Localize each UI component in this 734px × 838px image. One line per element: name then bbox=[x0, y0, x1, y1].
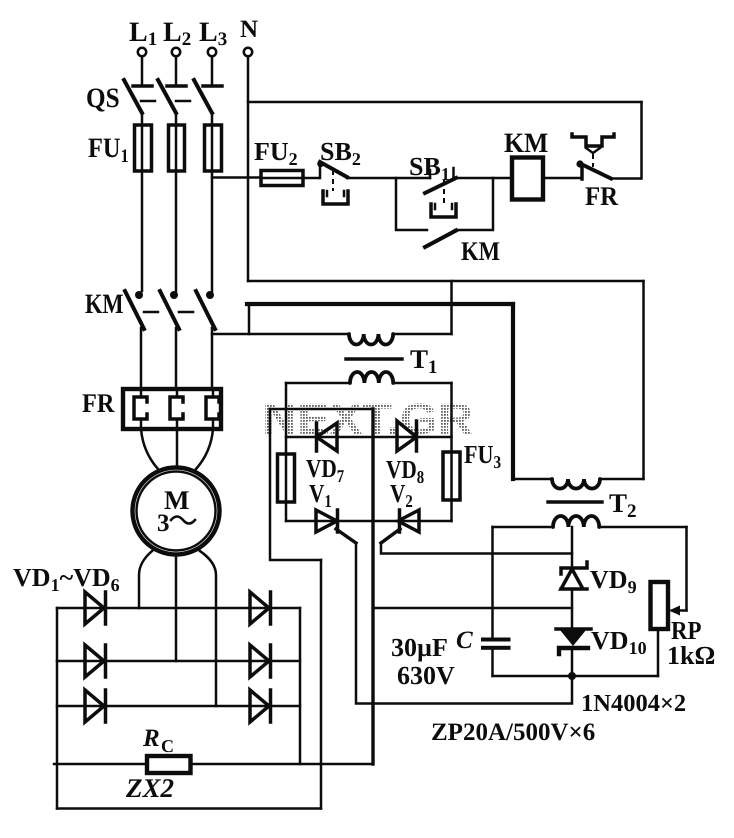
pushbutton SB1 (NO) bbox=[425, 168, 456, 217]
wire V2 gate bbox=[381, 543, 572, 554]
FR heater element 1 bbox=[134, 397, 147, 419]
wire L2 to QS bbox=[175, 57, 178, 85]
fuse FU1 pole2 bbox=[169, 125, 185, 171]
wire KM coil to FR bbox=[543, 177, 582, 180]
motor M bbox=[133, 468, 220, 555]
wire L3 to QS bbox=[211, 57, 214, 85]
wire box right lower bbox=[450, 500, 453, 521]
switch QS pole 2 bbox=[158, 80, 186, 125]
zener VD10 bbox=[556, 629, 591, 654]
wire inner tap bbox=[270, 408, 373, 411]
wire T1 right riser bbox=[450, 281, 453, 334]
wire center tap down bbox=[571, 527, 574, 566]
wire bridge rail 3 bbox=[57, 705, 300, 708]
fuse FU2 bbox=[261, 171, 303, 186]
transformer T1 primary coil bbox=[349, 334, 393, 345]
thyristor V1 bbox=[316, 510, 356, 543]
pushbutton SB2 (NC) bbox=[317, 161, 348, 204]
svg-text:L1: L1 bbox=[129, 17, 157, 50]
fuse FU4 (left, unlabeled) bbox=[278, 454, 295, 502]
svg-text:QS: QS bbox=[86, 83, 120, 114]
KM linkage dashes bbox=[144, 311, 193, 314]
contact FR (NC, thermal) bbox=[572, 134, 640, 179]
svg-text:T1: T1 bbox=[410, 344, 438, 378]
relay FR heater box bbox=[123, 389, 221, 429]
wire SB1 to KM coil bbox=[454, 177, 513, 180]
svg-text:ZX2: ZX2 bbox=[125, 773, 174, 803]
svg-text:SB1: SB1 bbox=[409, 152, 450, 184]
wire bottom line bbox=[57, 807, 321, 810]
svg-text:C: C bbox=[161, 736, 174, 756]
potentiometer RP bbox=[651, 582, 669, 629]
wire L1 to QS bbox=[141, 57, 144, 85]
svg-text:30µF: 30µF bbox=[391, 633, 448, 662]
wire T2 primary right bbox=[600, 478, 644, 481]
svg-text:ZP20A/500V×6: ZP20A/500V×6 bbox=[431, 719, 595, 746]
thyristor V2 bbox=[381, 510, 419, 543]
diode VD5 bbox=[250, 645, 271, 677]
wire mid rail bbox=[286, 436, 452, 439]
node L2 terminal bbox=[172, 48, 180, 56]
contact KM aux (self-holding) bbox=[396, 178, 493, 247]
svg-text:N: N bbox=[240, 16, 258, 43]
wire T2 secondary left bbox=[493, 526, 554, 529]
wire right riser to T2 bbox=[642, 281, 645, 479]
diode VD3 bbox=[85, 690, 106, 722]
wire FR interior segments bbox=[141, 389, 213, 429]
svg-text:FU3: FU3 bbox=[464, 440, 501, 472]
wire T1 primary right bbox=[393, 333, 452, 336]
node N terminal bbox=[244, 48, 252, 56]
svg-text:1kΩ: 1kΩ bbox=[667, 641, 715, 670]
wire motor to bridge leads bbox=[139, 551, 216, 706]
wire VD10 to bottom bbox=[571, 648, 574, 676]
capacitor C bbox=[481, 638, 511, 650]
fuse FU3 bbox=[443, 452, 460, 500]
svg-text:630V: 630V bbox=[397, 661, 455, 690]
svg-text:VD9: VD9 bbox=[590, 565, 637, 597]
wire bridge left bus bbox=[56, 608, 59, 809]
wire T1 primary line bbox=[212, 333, 349, 336]
svg-text:KM: KM bbox=[85, 289, 124, 320]
diode VD1 bbox=[85, 592, 106, 624]
wire box left upper bbox=[285, 383, 288, 454]
wire link to T1 primary bbox=[248, 304, 251, 334]
wire mid node line bbox=[373, 607, 572, 610]
svg-text:L2: L2 bbox=[163, 17, 191, 50]
wire left loop riser bbox=[320, 560, 323, 809]
fuse FU1 pole3 bbox=[205, 125, 222, 171]
wire left loop down bbox=[270, 409, 321, 560]
svg-text:SB2: SB2 bbox=[320, 137, 361, 169]
transformer T2 secondary coil bbox=[553, 516, 599, 527]
wire bottom rail bbox=[493, 675, 659, 678]
diode VD2 bbox=[85, 645, 106, 677]
junction dot bbox=[568, 672, 576, 680]
node L3 terminal bbox=[208, 48, 216, 56]
svg-text:3: 3 bbox=[157, 510, 170, 537]
contact KM main pole1 bbox=[125, 291, 144, 389]
fuse FU1 pole1 bbox=[135, 125, 152, 171]
svg-text:FR: FR bbox=[585, 181, 619, 211]
svg-text:FR: FR bbox=[82, 388, 115, 418]
wire box bottom rail bbox=[286, 520, 452, 523]
svg-text:C: C bbox=[456, 627, 473, 654]
wire L3 FU1 to KM bbox=[211, 171, 214, 291]
wire C branch upper bbox=[491, 527, 494, 637]
svg-text:L3: L3 bbox=[199, 17, 227, 50]
wire control top rail bbox=[248, 101, 642, 104]
wire bridge right bus bbox=[299, 608, 302, 764]
tilde bbox=[171, 517, 195, 524]
transformer T2 core bbox=[548, 500, 602, 503]
svg-text:VD1~VD6: VD1~VD6 bbox=[13, 563, 120, 595]
wire center output (thick) bbox=[371, 409, 374, 764]
wire RC rail left bbox=[54, 763, 147, 766]
wire RP wiper bbox=[669, 527, 687, 616]
node L1 terminal bbox=[138, 48, 146, 56]
contact KM main pole3 bbox=[196, 291, 215, 389]
svg-text:FU1: FU1 bbox=[88, 133, 129, 167]
FR heater element 3 bbox=[206, 397, 219, 419]
svg-text:T2: T2 bbox=[609, 488, 637, 522]
wire V1 gate bbox=[356, 543, 572, 704]
wire control right riser bbox=[640, 102, 643, 179]
wire FU2 to SB2 bbox=[303, 177, 319, 180]
wire N rail y281 bbox=[248, 280, 644, 283]
wire thick phase feeder horizontal bbox=[247, 302, 513, 306]
wire thick feeder vertical bbox=[511, 304, 515, 479]
zener VD9 bbox=[561, 562, 587, 589]
wire bridge rail 2 bbox=[57, 660, 300, 663]
wire RC rail right bbox=[191, 763, 374, 766]
svg-text:V1: V1 bbox=[309, 479, 332, 511]
wire C lower bbox=[491, 650, 494, 676]
wire L1 FU1 to KM bbox=[141, 171, 144, 291]
wire VD9 to mid bbox=[571, 589, 574, 629]
diode VD8 bbox=[397, 421, 417, 451]
contact KM main pole2 bbox=[160, 291, 179, 389]
svg-text:FU2: FU2 bbox=[254, 137, 298, 169]
resistor RC bbox=[147, 756, 191, 773]
wire box top left bbox=[286, 382, 350, 385]
wire control rail tap bbox=[212, 176, 261, 179]
wire T2 primary left bbox=[513, 478, 552, 481]
switch QS pole 3 bbox=[194, 80, 222, 125]
coil KM bbox=[512, 158, 543, 200]
diode VD6 bbox=[250, 690, 271, 722]
wire N down bbox=[247, 57, 250, 282]
svg-text:1N4004×2: 1N4004×2 bbox=[581, 690, 686, 717]
FR heater element 2 bbox=[170, 397, 183, 419]
wire L2 FU1 to KM bbox=[175, 171, 178, 291]
wire RP bottom bbox=[657, 629, 660, 676]
wire box right upper bbox=[450, 383, 453, 452]
wire box left lower bbox=[285, 502, 288, 521]
transformer T2 primary coil bbox=[552, 479, 600, 489]
wire bridge rail 1 bbox=[57, 607, 300, 610]
switch QS pole 1 bbox=[124, 80, 152, 125]
diode VD4 bbox=[250, 592, 271, 624]
wire box top right bbox=[393, 382, 452, 385]
transformer T1 secondary coil bbox=[350, 372, 393, 383]
svg-text:KM: KM bbox=[461, 236, 500, 266]
svg-text:KM: KM bbox=[504, 128, 548, 159]
wire SB2 to SB1 bbox=[347, 177, 430, 180]
wire T2 secondary right bbox=[599, 526, 687, 529]
transformer T1 core bbox=[346, 357, 402, 360]
wire FR to motor leads bbox=[141, 429, 213, 469]
QS linkage dashes bbox=[141, 100, 190, 103]
diode VD7 bbox=[317, 423, 338, 451]
svg-text:VD10: VD10 bbox=[591, 626, 647, 658]
svg-text:R: R bbox=[142, 725, 160, 752]
